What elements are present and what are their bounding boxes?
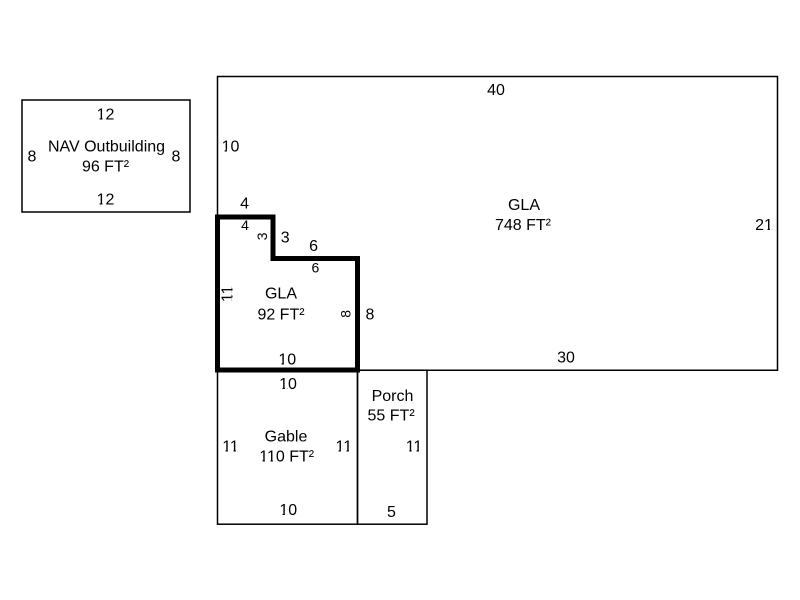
svg-text:4: 4	[241, 217, 249, 233]
svg-text:21: 21	[755, 217, 773, 234]
svg-text:96 FT²: 96 FT²	[82, 159, 130, 176]
svg-text:748 FT²: 748 FT²	[495, 217, 552, 234]
svg-text:30: 30	[557, 349, 575, 366]
svg-text:6: 6	[312, 260, 320, 276]
svg-text:Porch: Porch	[372, 388, 414, 405]
serif masks to give digit 1 an Arial-style foot-less stem	[97, 117, 772, 516]
svg-text:8: 8	[172, 148, 181, 165]
GLA748 dim 8 notch rotated	[337, 310, 353, 318]
svg-text:Gable: Gable	[265, 429, 308, 446]
GLA92 dim 11 left rotated	[220, 285, 237, 302]
GLA 92 thick outline	[218, 217, 358, 370]
svg-text:8: 8	[366, 306, 375, 323]
svg-text:11: 11	[406, 438, 423, 455]
svg-text:110 FT²: 110 FT²	[259, 448, 315, 465]
svg-text:10: 10	[279, 376, 297, 393]
svg-text:10: 10	[279, 502, 297, 519]
svg-text:GLA: GLA	[508, 197, 540, 214]
svg-text:12: 12	[97, 191, 115, 208]
svg-text:12: 12	[97, 106, 115, 123]
svg-text:5: 5	[387, 504, 396, 521]
svg-text:4: 4	[240, 195, 249, 212]
NAV Outbuilding outline	[22, 100, 190, 212]
svg-text:10: 10	[278, 351, 296, 368]
svg-text:11: 11	[335, 438, 352, 455]
GLA 748 outline	[218, 77, 778, 371]
svg-text:NAV Outbuilding: NAV Outbuilding	[48, 139, 165, 156]
svg-text:10: 10	[222, 138, 240, 155]
Porch outline	[358, 370, 428, 524]
svg-text:8: 8	[28, 148, 37, 165]
svg-text:11: 11	[222, 438, 239, 455]
svg-text:8: 8	[337, 310, 353, 318]
svg-text:55 FT²: 55 FT²	[368, 408, 416, 425]
svg-text:92 FT²: 92 FT²	[257, 306, 305, 323]
GLA748 dim 3 notch rotated	[254, 232, 270, 240]
svg-text:3: 3	[281, 230, 290, 247]
svg-text:6: 6	[309, 238, 318, 255]
svg-text:3: 3	[254, 232, 270, 240]
svg-text:GLA: GLA	[265, 286, 297, 303]
svg-text:40: 40	[487, 82, 505, 99]
Gable outline	[218, 370, 358, 524]
